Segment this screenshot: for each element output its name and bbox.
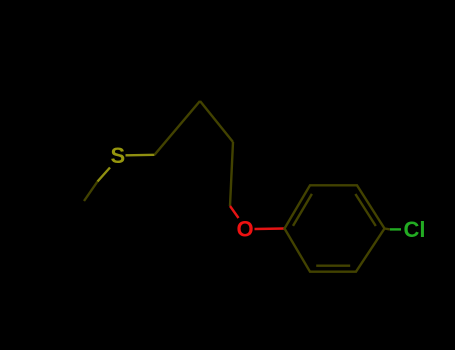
wire: bond CH3-S (bright half near S) xyxy=(98,168,111,182)
wire: bond ring-Cl (green) xyxy=(390,228,401,230)
wire: bond C4-O (red) xyxy=(230,206,239,218)
svg-text:O: O xyxy=(237,217,254,242)
aromatic inner bond TR-R xyxy=(355,194,375,226)
wire: bond S-C1 xyxy=(126,154,155,157)
wire: bond ring-Cl (dark lead) xyxy=(385,227,391,230)
aromatic inner bond BR-BL xyxy=(316,265,350,267)
svg-text:Cl: Cl xyxy=(404,217,426,242)
svg-text:S: S xyxy=(111,143,126,168)
wire: bond C1-C2 xyxy=(155,101,201,155)
benzene ring outline xyxy=(285,185,385,271)
wire: bond CH3-S (dark half, methyl end) xyxy=(84,182,98,202)
aromatic inner bond L-TL xyxy=(293,194,312,226)
wire: bond C2-C3 xyxy=(200,101,233,142)
wire: bond C3-C4 xyxy=(230,142,233,206)
wire: bond O-ring (red) xyxy=(255,227,285,230)
